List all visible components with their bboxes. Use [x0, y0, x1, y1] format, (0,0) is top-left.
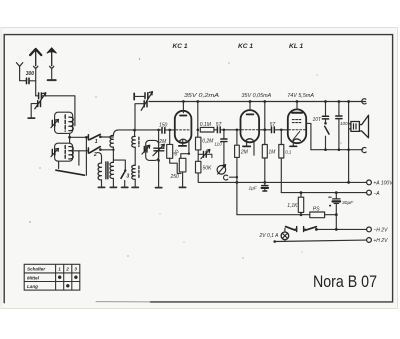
wire R80 down elbow — [170, 158, 181, 173]
V1 anode plate — [180, 115, 187, 117]
wire 2M up to grid — [236, 130, 238, 145]
V2 cathode — [246, 139, 254, 141]
antenna A2 (short aerial, filled arrow) — [47, 48, 56, 66]
wire antenna A1 down — [35, 69, 37, 96]
switch arm S3 — [121, 171, 125, 178]
node -H / 30uF — [335, 228, 338, 231]
node speaker column/+A — [347, 181, 350, 184]
wire tap to switch 3 — [113, 160, 125, 171]
ground G2 — [122, 186, 128, 188]
node rail/V3 — [296, 100, 299, 103]
wire 2M down to bottom bus — [236, 157, 238, 214]
+A bus — [237, 181, 366, 183]
speaker coil bars — [354, 124, 357, 129]
core of L1 — [64, 115, 66, 131]
svg-text:2: 2 — [65, 267, 69, 272]
wire L2 tap down — [78, 151, 80, 165]
wire L2 bottom — [58, 161, 60, 168]
wire L5 top to node — [134, 130, 136, 137]
node anode/R 0,1M — [197, 129, 200, 132]
speaker body — [351, 122, 360, 132]
plug connector of A2 — [50, 66, 54, 68]
V3 cathode — [293, 139, 301, 141]
anode column wire — [197, 102, 199, 138]
svg-text:2M: 2M — [158, 139, 167, 145]
trimmer capacitor CT2 (oscillator, two sections) — [141, 92, 152, 111]
svg-text:−H 2V: −H 2V — [373, 228, 388, 234]
wire L5 middle — [134, 147, 136, 165]
anode feed V2 column — [264, 102, 266, 145]
wire CT1 bottom to ground — [31, 104, 37, 118]
wire L1 bottom to node — [69, 133, 71, 143]
switch arm S2 — [90, 147, 101, 153]
wire bus down from switch line — [85, 137, 87, 175]
T1 core — [106, 162, 108, 179]
filament bottom bus — [237, 214, 336, 216]
wire trimmer down — [158, 152, 160, 160]
scan specks (paper noise) — [139, 58, 140, 59]
wire grid line from N3 to C150 — [135, 129, 162, 131]
-A line — [281, 192, 366, 194]
svg-text:1,1K: 1,1K — [287, 203, 298, 209]
speaker feed column — [348, 102, 350, 182]
node S1 out — [99, 136, 102, 139]
node S2 out — [99, 148, 102, 151]
node 1,1K top — [300, 191, 303, 194]
svg-text:1µF: 1µF — [249, 185, 258, 191]
wire C110 to pickup — [223, 142, 225, 166]
wire L3 down to L4 — [112, 147, 114, 162]
wire grid leak up — [280, 130, 282, 145]
capacitor 30uF (electrolytic) — [335, 193, 337, 199]
capacitor 5T (coupling) — [217, 127, 220, 133]
terminal +A 100V — [367, 180, 372, 185]
wire pickup to bus — [229, 176, 237, 178]
tank circuit box L2/CV2 — [55, 143, 73, 161]
V3 top cap lead — [296, 102, 298, 110]
T1 secondary coil (on L3 line) — [110, 162, 113, 178]
wave band table — [24, 264, 80, 290]
mains switch right arm — [305, 227, 316, 231]
terminal -A — [367, 190, 372, 195]
svg-text:300: 300 — [26, 71, 35, 77]
HT supply rail — [149, 101, 366, 103]
svg-text:+H 2V: +H 2V — [373, 238, 388, 244]
trimmer capacitor (AVC) — [201, 149, 212, 158]
V1 top cap lead — [182, 102, 184, 113]
svg-text:35V 0,05mA: 35V 0,05mA — [242, 93, 272, 99]
V3 internal diagonal — [293, 131, 300, 139]
wire 1M down to HT bus — [264, 158, 266, 182]
wire C5T to V2 grid — [221, 129, 241, 131]
capacitor 300 — [27, 78, 30, 83]
svg-text:30µF: 30µF — [342, 200, 354, 206]
dropper PS — [310, 212, 325, 218]
svg-text:KC 1: KC 1 — [173, 43, 188, 50]
svg-text:Mittel: Mittel — [27, 275, 40, 280]
resistor 80 — [167, 144, 173, 158]
antenna A3 (small Y aerial) — [16, 63, 22, 72]
oscillator coil L5 lower — [132, 165, 135, 179]
svg-text:5T: 5T — [270, 122, 277, 128]
trimmer capacitor CT1 (antenna coupling, two-gang) — [35, 93, 46, 109]
wire T1 primary to ground — [101, 180, 103, 187]
V3 screen dashes — [292, 119, 301, 121]
capacitor 100 branch — [338, 102, 340, 116]
node rail/anode column — [196, 100, 199, 103]
ground G4 — [110, 186, 116, 188]
wire V2 anode to column — [259, 129, 271, 131]
svg-text:2M: 2M — [240, 149, 249, 155]
capacitor 1uF — [264, 182, 266, 185]
svg-text:3: 3 — [126, 174, 129, 180]
wire A1 into CT1 — [36, 95, 38, 97]
pickup return contact — [224, 175, 228, 180]
resistor 1M — [262, 145, 267, 159]
svg-text:Schalter: Schalter — [27, 267, 45, 272]
gang coupling link — [56, 170, 85, 175]
resistor 50K — [196, 161, 201, 173]
polarity minus — [329, 196, 332, 198]
svg-text:250: 250 — [170, 174, 180, 180]
wire L2 right to switch 2 — [73, 150, 88, 152]
switch contact S1 — [87, 135, 89, 140]
V3 grid (dashed) — [289, 129, 306, 131]
node +H end — [273, 240, 276, 243]
svg-text:10T: 10T — [313, 117, 323, 123]
wire CT1 top-right to tank L1 — [42, 96, 75, 126]
resistor 0,1M — [200, 127, 214, 132]
node 30uF top — [335, 191, 338, 194]
node loop bottom — [157, 159, 160, 162]
node HT bus start — [236, 181, 239, 184]
node below 10T — [324, 122, 327, 125]
capacitor 150 — [162, 128, 165, 134]
node 1,1K bottom — [300, 213, 303, 216]
terminal bar of A2 — [48, 79, 56, 81]
capacitor 100 — [336, 116, 342, 119]
svg-text:0,1M: 0,1M — [200, 122, 212, 128]
output return line — [311, 149, 363, 151]
ground G6 — [156, 187, 162, 189]
svg-text:74V 5,5mA: 74V 5,5mA — [287, 93, 314, 99]
svg-text:Lang: Lang — [27, 284, 38, 289]
svg-text:0,2M: 0,2M — [202, 138, 214, 144]
terminal -H 2V — [367, 227, 372, 232]
V2 cathode bar — [243, 145, 250, 147]
node N2 — [85, 136, 88, 139]
trimmer capacitor CT3 (padder) — [142, 145, 150, 154]
svg-text:2: 2 — [93, 152, 97, 158]
wire R to C5T — [214, 129, 217, 131]
terminal bar of oscillator trimmer — [133, 93, 135, 99]
wire grid leak down to -A line — [280, 158, 282, 193]
wire C300 to A1 shaft — [30, 80, 36, 82]
variable capacitor CV2 — [51, 148, 59, 156]
node osc trimmer branch — [157, 129, 160, 132]
node switch/-H — [315, 228, 318, 231]
node grid leak V3 — [280, 129, 283, 132]
svg-text:35V 0,2mA: 35V 0,2mA — [184, 93, 220, 99]
tube V3 KL1 envelope — [288, 109, 306, 143]
oscillator coil L5 upper — [132, 136, 135, 147]
V3 screen side lead — [306, 123, 311, 149]
coil L3 (RF coil) — [110, 135, 113, 147]
wire grid to R80 — [169, 130, 171, 145]
node anode V2 — [263, 128, 266, 131]
svg-text:5T: 5T — [216, 122, 223, 128]
V1 grid (dashed) — [176, 129, 191, 131]
mains switch left arm — [286, 227, 296, 231]
core dashes of L5 — [138, 137, 140, 146]
wire T1 secondary to ground — [112, 178, 114, 187]
wire L5 to ground — [134, 179, 136, 187]
wire down to padder loop — [158, 130, 160, 146]
resistor 2M (V2 grid leak) — [235, 145, 240, 157]
table dot Mittel-3 — [74, 276, 77, 279]
svg-text:KC 1: KC 1 — [238, 43, 253, 50]
resistor 0,2M — [196, 137, 201, 150]
wire L3 top elbow to grid line — [113, 130, 134, 136]
V3 cathode bar — [290, 145, 297, 147]
tube V2 KC1 envelope — [241, 110, 260, 142]
svg-text:1: 1 — [58, 267, 61, 272]
-H line — [316, 228, 366, 230]
svg-text:−A: −A — [373, 191, 380, 197]
svg-text:150: 150 — [159, 122, 168, 128]
wire S3 to ground — [124, 181, 126, 187]
svg-text:Nora B 07: Nora B 07 — [313, 272, 377, 291]
V2 anode plate — [247, 113, 254, 115]
node rail/V2 — [249, 100, 252, 103]
node 30uF / bottom bus — [335, 213, 338, 216]
ground G5 — [132, 186, 138, 188]
switch contact bars — [297, 227, 304, 232]
wire tap to trimmer — [198, 153, 203, 155]
wire loop bottom to ground — [158, 160, 160, 187]
svg-text:0,1: 0,1 — [285, 149, 292, 154]
ground G3 — [98, 186, 104, 188]
node 1M/HT bus — [263, 181, 266, 184]
V1 cathode — [179, 139, 186, 141]
tube V1 KC1 envelope — [175, 111, 192, 143]
core dashes of L5 lower — [138, 166, 140, 178]
variable capacitor CV1 — [51, 119, 59, 127]
node grid leak 2M — [236, 129, 239, 132]
trimmer capacitor 2M (oscillator trim) — [153, 144, 165, 156]
wire C150 to tube V1 — [166, 129, 175, 131]
wire N1 to switch 1 — [70, 136, 88, 138]
border frame — [4, 35, 392, 303]
V1 cathode bar — [179, 145, 186, 147]
switch contact S2 — [87, 148, 89, 153]
node rail column — [263, 100, 266, 103]
wire C100 to return line — [338, 119, 340, 150]
terminal +H 2V — [367, 238, 372, 243]
resistor 1,1K — [298, 197, 303, 212]
table dot Lang-2 — [66, 284, 69, 287]
svg-text:110: 110 — [214, 142, 222, 147]
V3 anode bar — [292, 112, 302, 114]
plug connector of A1 — [34, 66, 38, 68]
svg-text:1M: 1M — [268, 149, 276, 155]
svg-text:PS: PS — [313, 207, 320, 213]
capacitor 10T branch — [325, 102, 327, 117]
svg-text:KL 1: KL 1 — [289, 43, 304, 50]
speaker cone — [359, 115, 368, 138]
capacitor 5T (2nd coupling) — [272, 127, 275, 133]
wire bar to CT2 — [135, 95, 145, 97]
resistor 0,1 (V3 grid leak) — [279, 145, 284, 159]
node N3 — [133, 129, 136, 132]
wire switch to return line — [325, 136, 327, 150]
wire 50K to bottom bus — [198, 173, 237, 183]
node N1 — [68, 136, 71, 139]
dial lamp 2V 0,1A — [281, 232, 289, 240]
svg-text:+A 100V: +A 100V — [373, 181, 393, 187]
coil L1 — [69, 117, 74, 131]
node pickup bus — [236, 176, 238, 178]
capacitor 110 — [223, 130, 225, 139]
svg-text:2V 0,1 A: 2V 0,1 A — [259, 233, 280, 239]
connector C2 (speaker return) — [362, 147, 366, 152]
node S2/L3 — [112, 149, 114, 151]
V3 cathode lead — [292, 140, 294, 146]
table dot Mittel-1 — [58, 276, 61, 279]
V2 grid (dashed) — [242, 129, 259, 131]
svg-text:1: 1 — [95, 139, 98, 145]
svg-text:50K: 50K — [203, 165, 213, 171]
V2 filament lead — [253, 141, 255, 155]
wire S1 to L3 — [100, 136, 113, 138]
switch arm S1 — [90, 134, 101, 139]
wire R250 to ground — [182, 172, 184, 187]
node grid/R80 — [168, 129, 171, 132]
connector C1 (speaker feed, end of rail) — [362, 99, 366, 104]
resistor 250 — [179, 158, 186, 172]
tank circuit box L1/CV1 — [55, 112, 73, 133]
ground G7 — [179, 186, 185, 188]
tone switch arm — [325, 126, 329, 134]
speaker terminals — [349, 124, 351, 129]
V1 filament lead — [181, 142, 189, 159]
wire C5T to V3 grid — [275, 129, 288, 131]
node rail/V1 top cap — [182, 100, 185, 103]
+H line — [275, 240, 367, 241]
wire R 0,2M down — [197, 150, 199, 161]
node filament — [188, 153, 190, 155]
antenna A1 (outdoor aerial arrow) — [30, 49, 41, 66]
pickup jack (circle with arrow) — [217, 165, 226, 175]
core of L2 — [64, 146, 66, 159]
wire S2 to coil L3 column — [100, 149, 113, 151]
wire A2 stub — [51, 69, 53, 80]
V2 top cap lead — [249, 102, 251, 111]
svg-text:3: 3 — [74, 267, 77, 272]
ground G1 — [28, 117, 34, 119]
polarity plus dot — [329, 205, 331, 207]
capacitor 10T — [322, 116, 328, 119]
node C110 branch — [223, 129, 226, 132]
padder loop — [146, 140, 159, 160]
svg-text:100: 100 — [340, 121, 348, 126]
transformer T1 primary coil — [98, 163, 101, 180]
V1 cathode lead — [182, 140, 184, 146]
T1 primary top hook — [97, 153, 101, 164]
V2 cathode lead — [246, 140, 248, 146]
coil L2 — [69, 147, 74, 159]
wire CT2 lower section left elbow down to N3 — [135, 104, 144, 130]
wire A3 to C300 — [20, 71, 26, 81]
